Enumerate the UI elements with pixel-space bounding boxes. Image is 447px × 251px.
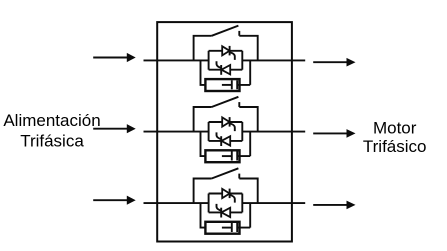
gate of SCR3b <box>217 204 222 211</box>
thyristor SCR1b (reverse) <box>221 65 230 74</box>
arrow: supply phase L2 <box>93 128 128 130</box>
arrow: supply phase L1 <box>93 57 128 59</box>
wire: phase L1 output stub <box>242 59 305 61</box>
snubber resistor lead module 1 <box>222 84 232 86</box>
thyristor SCR2a (forward) <box>222 117 229 126</box>
snubber capacitor C1 <box>231 80 233 89</box>
snubber capacitor C3 <box>231 223 233 232</box>
thyristor module box U2 <box>208 122 210 141</box>
thyristor SCR3b (reverse) <box>221 208 230 217</box>
arrow: motor phase L1 <box>313 61 347 63</box>
wire: phase L2 output stub <box>242 131 305 133</box>
gate of SCR2a <box>230 124 235 132</box>
thyristor SCR3a (forward) <box>222 189 229 198</box>
gate of SCR2b <box>217 132 222 139</box>
wire: snubber branch right, module 2 <box>237 132 250 157</box>
wire: snubber branch left, module 1 <box>201 60 206 85</box>
snubber RC network box module 2 <box>205 150 239 162</box>
bypass contactor switch S3 <box>194 179 212 204</box>
svg-text:Motor: Motor <box>373 118 417 137</box>
snubber RC network box module 3 <box>205 222 239 234</box>
wire: phase L2 input stub <box>144 131 209 133</box>
arrow: motor phase L2 <box>313 132 347 134</box>
thyristor module box U3 <box>208 194 210 213</box>
wire: phase L3 input stub <box>144 202 209 204</box>
wire: snubber branch left, module 2 <box>201 132 206 157</box>
enclosure box: solid state starter unit <box>157 22 292 241</box>
bypass contactor switch S2 <box>194 107 212 132</box>
wire: snubber branch right, module 1 <box>237 60 250 85</box>
arrow: motor phase L3 <box>313 204 347 206</box>
svg-text:Alimentación: Alimentación <box>3 111 100 130</box>
wire: phase L1 input stub <box>144 59 209 61</box>
wire: snubber branch right, module 3 <box>237 203 250 228</box>
wire: phase L3 output stub <box>242 202 305 204</box>
thyristor SCR1a (forward) <box>222 46 229 55</box>
bypass contactor switch S1 <box>194 36 212 61</box>
thyristor module box U1 <box>208 51 210 70</box>
gate of SCR3a <box>230 195 235 203</box>
snubber RC network box module 1 <box>205 79 239 91</box>
snubber resistor lead module 3 <box>222 227 232 229</box>
arrow: supply phase L3 <box>93 199 128 201</box>
wire: snubber branch left, module 3 <box>201 203 206 228</box>
gate of SCR1a <box>230 52 235 60</box>
svg-text:Trifásico: Trifásico <box>363 137 427 156</box>
snubber resistor lead module 2 <box>222 155 232 157</box>
snubber capacitor C2 <box>231 152 233 161</box>
gate of SCR1b <box>217 61 222 68</box>
thyristor SCR2b (reverse) <box>221 136 230 145</box>
svg-text:Trifásica: Trifásica <box>20 131 84 150</box>
